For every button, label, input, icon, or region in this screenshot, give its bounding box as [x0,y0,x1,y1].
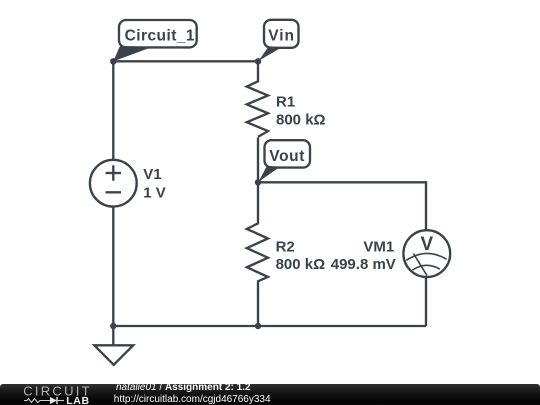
svg-text:Circuit_1: Circuit_1 [125,27,195,44]
svg-text:Vout: Vout [269,148,305,165]
footer bar [0,384,540,405]
wire top node to V1 positive terminal [112,61,114,159]
wire bottom rail [113,325,426,327]
svg-text:800 kΩ: 800 kΩ [276,111,326,128]
svg-text:1 V: 1 V [143,184,166,201]
wire Vout node to VM1 top [258,182,426,229]
wire bottom node to ground [112,326,114,345]
svg-text:Vin: Vin [268,28,295,45]
wire Vout node to R2 top [257,182,259,224]
resistor R2 [247,223,268,281]
wire Vin node to R1 top [257,61,259,82]
node junction Vin [255,58,261,64]
value label R1 [276,94,326,129]
voltmeter VM1 [403,230,450,277]
ground [94,345,133,365]
wire R1 bottom to Vout node [257,138,259,183]
svg-text:R1: R1 [276,94,295,111]
value label V1 [143,166,166,201]
svg-text:800 kΩ: 800 kΩ [276,256,326,273]
svg-text:V: V [420,234,433,255]
wire R2 bottom to bottom rail [257,280,259,326]
svg-text:499.8 mV: 499.8 mV [331,256,396,273]
node label Circuit_1 [113,20,196,61]
node junction top-left [110,58,116,64]
node label Vin [258,20,298,61]
svg-text:R2: R2 [276,238,295,255]
svg-text:LAB: LAB [66,395,89,405]
CircuitLab logo [23,383,91,405]
svg-text:VM1: VM1 [363,238,394,255]
wire V1 negative terminal to bottom node [112,208,114,327]
wire top rail Circuit_1 to Vin [113,60,258,62]
svg-text:V1: V1 [143,166,161,183]
value label VM1 [331,238,396,273]
node junction Vout [255,179,261,185]
node junction R2 bottom [255,323,261,329]
voltage source V1 [90,160,137,207]
resistor R1 [247,81,268,137]
node label Vout [258,140,310,182]
node junction bottom-left [110,323,116,329]
wire VM1 bottom to bottom rail [425,278,427,326]
value label R2 [276,238,326,273]
